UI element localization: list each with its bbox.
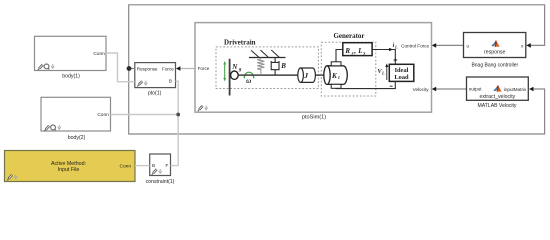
motor top terminal <box>331 62 341 66</box>
svg-text:Force: Force <box>162 67 174 72</box>
svg-text:pto(1): pto(1) <box>148 91 162 97</box>
conn wire Active Method to constraint(1).B <box>135 165 150 167</box>
block extract_velocity (MATLAB Velocity) <box>467 77 529 109</box>
svg-text:Bnag Bang controller: Bnag Bang controller <box>471 63 518 69</box>
block pto(1) <box>135 63 176 97</box>
wire stub dot to pto Response port <box>129 68 135 70</box>
wire response.u to ptoSim Control Force <box>436 44 464 46</box>
svg-text:L: L <box>357 47 362 55</box>
drivetrain shaft <box>238 74 324 76</box>
block response (Bnag Bang controller) <box>464 33 526 69</box>
svg-text:L: L <box>394 44 398 49</box>
green double arrow <box>224 64 226 79</box>
junction node at pto Response <box>127 66 132 71</box>
block body(1) <box>35 36 107 79</box>
svg-text:Drivetrain: Drivetrain <box>224 38 256 46</box>
svg-text:B: B <box>169 78 172 83</box>
wire ptoSim Force to pto(1) Force <box>180 68 195 70</box>
svg-text:Load: Load <box>394 74 409 81</box>
svg-text:MATLAB Velocity: MATLAB Velocity <box>478 103 517 109</box>
arrowhead into response x port <box>526 43 531 48</box>
svg-text:ptoSim(1): ptoSim(1) <box>302 115 326 121</box>
plus sign <box>394 58 398 62</box>
svg-text:u: u <box>467 43 470 48</box>
svg-text:Input File: Input File <box>58 167 80 173</box>
svg-text:N: N <box>231 63 238 71</box>
svg-text:Conn: Conn <box>93 51 105 57</box>
circuit wire RL to load top <box>372 50 395 65</box>
svg-text:Control Force: Control Force <box>401 43 429 48</box>
svg-text:extract_velocity: extract_velocity <box>480 94 516 100</box>
arrowhead into ptoSim Velocity <box>432 87 437 92</box>
flywheel J cylinder <box>301 68 316 82</box>
block ptoSim(1) frame <box>195 23 432 113</box>
conn wire body(1) to pto(1) <box>106 53 135 82</box>
arrowhead into extract inputMatrix port <box>529 87 534 92</box>
svg-text:body(1): body(1) <box>62 74 80 80</box>
ceiling line <box>249 57 286 59</box>
RL block R_s L_s <box>343 43 372 56</box>
svg-text:Force: Force <box>198 66 210 71</box>
circuit wire motor bottom to load bottom <box>336 81 395 88</box>
svg-text:inputMatrix: inputMatrix <box>504 87 527 92</box>
Generator dashed box <box>321 42 376 96</box>
junction node on B network <box>176 113 180 117</box>
svg-text:Ideal: Ideal <box>395 67 409 74</box>
svg-text:s: s <box>362 51 365 56</box>
svg-text:Generator: Generator <box>333 32 364 40</box>
load block Ideal Load <box>389 64 414 81</box>
svg-text:L: L <box>381 71 385 76</box>
spring zigzag <box>257 58 264 76</box>
svg-text:R: R <box>344 47 350 55</box>
wire feedback bottom loop (pto Response to extract inputMatrix) <box>129 69 545 135</box>
minus sign <box>390 85 393 87</box>
svg-text:,: , <box>354 47 356 55</box>
svg-text:Conn: Conn <box>97 112 109 118</box>
svg-text:output: output <box>469 86 482 91</box>
svg-text:Response: Response <box>137 67 158 72</box>
wall bar <box>229 59 231 96</box>
motor K_t cylinder <box>327 66 347 85</box>
node circle N_g <box>231 71 239 79</box>
block Active Method Input File <box>5 151 136 182</box>
wire feedback top loop (pto Response to response.x) <box>129 5 545 69</box>
green omega arc <box>244 72 254 78</box>
current direction arrow <box>389 48 393 52</box>
svg-text:g: g <box>238 68 242 73</box>
wire extract.output to ptoSim Velocity <box>436 88 467 90</box>
block body(2) <box>41 97 111 141</box>
circuit wire motor top to RL block <box>336 50 343 62</box>
svg-text:J: J <box>303 71 308 80</box>
block constraint(1) <box>146 154 175 185</box>
arrowhead into ptoSim Control Force <box>432 43 437 48</box>
svg-text:F: F <box>165 163 168 168</box>
ceiling hatch marks <box>251 50 279 57</box>
svg-text:body(2): body(2) <box>68 135 86 141</box>
V_L arrow <box>386 66 388 80</box>
svg-text:Conn: Conn <box>120 164 132 170</box>
svg-text:Velocity: Velocity <box>413 87 430 92</box>
conn wire pto(1).B down to constraint(1).F <box>171 81 179 165</box>
svg-text:constraint(1): constraint(1) <box>146 179 175 185</box>
svg-text:B: B <box>152 163 155 168</box>
arrowhead into pto(1) Force <box>176 66 181 70</box>
motor bottom terminal <box>331 84 341 88</box>
Drivetrain dashed box <box>216 47 318 89</box>
svg-text:response: response <box>484 50 505 56</box>
conn wire body(2) to B network <box>111 114 179 116</box>
svg-text:B: B <box>280 62 286 70</box>
svg-text:ω: ω <box>246 77 251 85</box>
damper <box>271 58 279 76</box>
